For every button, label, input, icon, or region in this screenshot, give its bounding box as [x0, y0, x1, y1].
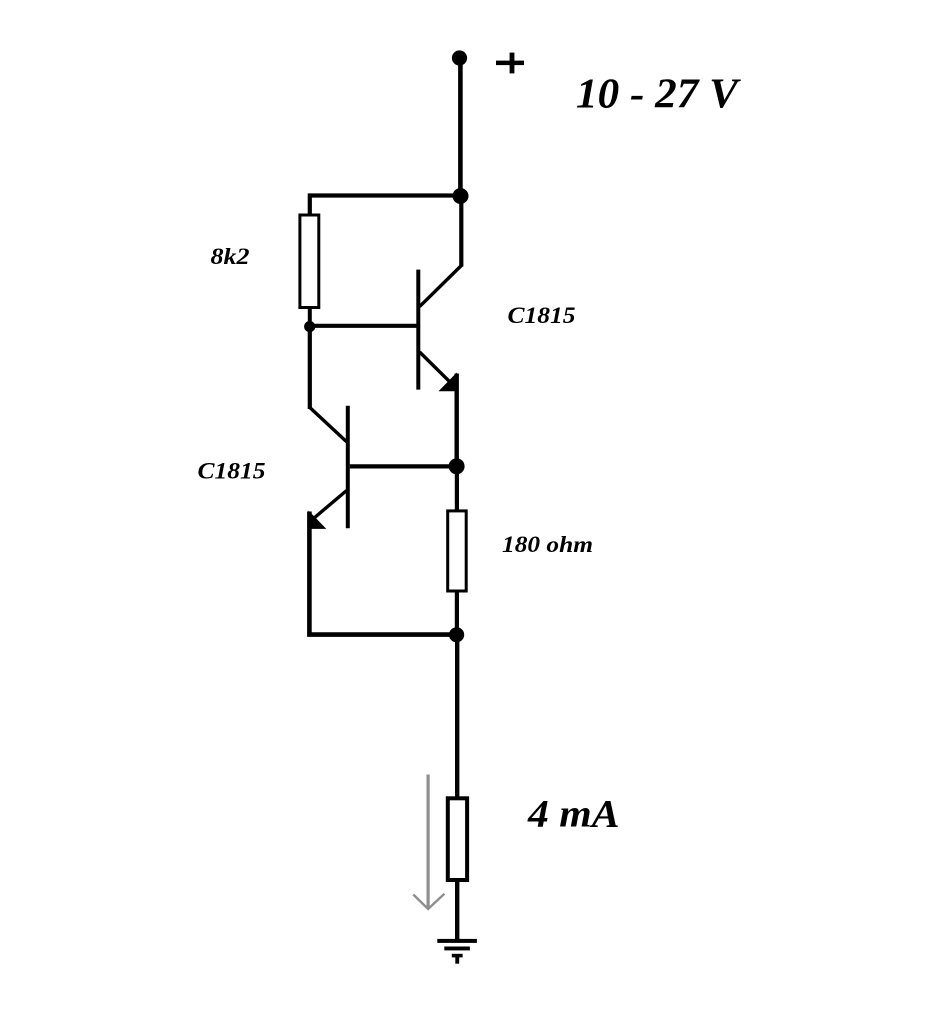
wire: V+ terminal down to rail junction: [458, 58, 463, 196]
node D: R2 bottom / Q2 emitter / load junction: [449, 627, 464, 642]
node C: Q1 emitter / Q2 base / R2 top junction: [449, 458, 465, 474]
load resistor (output load): [448, 798, 467, 880]
wire: rail junction left and down to R1 top: [310, 196, 461, 215]
current direction arrow (4 mA, gray): [413, 775, 444, 910]
plus polarity symbol: [496, 53, 524, 74]
svg-text:180 ohm: 180 ohm: [502, 532, 593, 558]
svg-text:8k2: 8k2: [211, 244, 250, 270]
transistor Q2 C1815: [309, 406, 348, 529]
svg-text:4 mA: 4 mA: [527, 791, 620, 835]
resistor R1 8k2: [300, 215, 319, 308]
wire: node D down to load resistor: [455, 635, 459, 797]
rail junction node: [453, 188, 469, 204]
wire: R2 bottom to node D: [455, 592, 459, 635]
V+ terminal dot: [452, 50, 467, 65]
wire: Q2 base to node C: [350, 464, 457, 468]
wire: R1 bottom to node B: [308, 308, 312, 326]
wire: Q1 collector up to rail junction: [459, 196, 463, 267]
transistor Q1 C1815: [418, 265, 462, 391]
svg-text:10 - 27 V: 10 - 27 V: [576, 70, 742, 117]
wire: node B to Q1 base: [310, 324, 417, 328]
wire: node C down to R2 top: [455, 466, 459, 511]
wire: load resistor to ground: [455, 880, 459, 942]
wire: Q1 emitter down to node C: [455, 374, 459, 467]
ground: [437, 939, 477, 964]
resistor R2 180 ohm: [448, 511, 467, 591]
svg-text:C1815: C1815: [198, 458, 266, 484]
svg-text:C1815: C1815: [508, 303, 576, 329]
wire: node B down to Q2 collector diagonal: [308, 326, 312, 409]
wire: Q2 emitter down and right to node D: [309, 512, 456, 635]
node B: R1 / Q1 base / Q2 collector junction: [304, 321, 315, 332]
